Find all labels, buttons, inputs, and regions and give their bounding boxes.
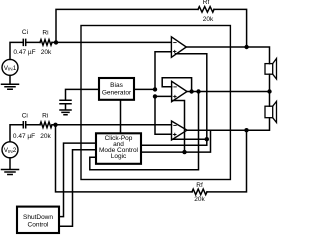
wire bias output right xyxy=(134,88,155,90)
svg-text:Ri: Ri xyxy=(42,29,48,36)
shutdown control U6 xyxy=(17,207,59,233)
wire Rf to amp1 output xyxy=(214,9,247,47)
wire bias to logic xyxy=(120,100,122,134)
speaker 2 xyxy=(265,101,277,122)
wire amp3 control xyxy=(173,138,207,140)
wire Ci to Ri (channel 1) xyxy=(26,41,40,43)
node bias junction 1 xyxy=(153,87,157,91)
wire Vin1 to Ci xyxy=(10,42,23,59)
wire Ri to amp3 inverting input xyxy=(52,124,172,126)
ground under Vin1 xyxy=(2,75,19,89)
wire bias bypass left xyxy=(66,89,100,100)
node amp2 output sense junction xyxy=(196,89,200,93)
wire amp2 feedback loop xyxy=(162,78,191,92)
svg-text:0.47 µF: 0.47 µF xyxy=(13,133,35,140)
svg-text:Control: Control xyxy=(28,222,50,229)
bias generator U4 xyxy=(99,78,134,100)
resistor Rf (top) xyxy=(198,7,214,13)
wire amp3 + input xyxy=(155,96,172,134)
svg-text:Rf: Rf xyxy=(196,182,203,189)
wire amp3 output xyxy=(187,118,270,131)
op-amp U3 (bottom) xyxy=(172,121,188,140)
wire Ci to Ri (channel 2) xyxy=(26,124,40,126)
mode control logic U5 xyxy=(96,133,141,164)
svg-text:Rf: Rf xyxy=(203,0,210,6)
svg-text:ShutDown: ShutDown xyxy=(23,214,53,221)
capacitor Ci (channel 1) xyxy=(23,39,25,45)
source Vin1 xyxy=(2,59,18,75)
wire amp1 output xyxy=(186,47,269,64)
label amp3 minus xyxy=(173,124,176,126)
IC package outline xyxy=(81,26,230,180)
wire amp2 output xyxy=(187,91,270,93)
ground under Vin2 xyxy=(2,158,19,175)
svg-text:Ri: Ri xyxy=(42,113,48,120)
wire Rf bottom to amp3 output xyxy=(207,130,247,192)
wire amp3 output sense xyxy=(141,130,211,152)
svg-text:0.47 µF: 0.47 µF xyxy=(13,49,35,56)
label amp2 plus xyxy=(173,95,176,98)
wire common to speaker2 xyxy=(269,92,271,107)
node amp2 control junction xyxy=(182,150,186,154)
label amp2 minus xyxy=(173,86,176,88)
svg-text:Generator: Generator xyxy=(102,90,132,97)
node amp3 output junction xyxy=(244,128,248,132)
wire Ri to amp1 inverting input xyxy=(52,41,171,43)
wire shutdown to logic 2 xyxy=(59,150,96,227)
wire amp1 control xyxy=(141,54,207,145)
wire amp2 control xyxy=(173,101,185,153)
svg-text:20k: 20k xyxy=(41,49,52,56)
svg-text:Bias: Bias xyxy=(110,82,123,89)
wire feedback drop channel 2 xyxy=(56,125,193,192)
node amp1 output junction xyxy=(244,45,248,49)
wire amp2 + input xyxy=(155,95,172,97)
node amp2 feedback junction xyxy=(189,89,193,93)
svg-text:VIN1: VIN1 xyxy=(4,65,17,72)
wire amp2 output to logic xyxy=(90,92,199,170)
svg-text:20k: 20k xyxy=(40,133,51,140)
wire speaker1 to common xyxy=(269,74,271,91)
node IN2- junction xyxy=(53,123,57,127)
wire amp1 + input xyxy=(155,52,171,90)
label amp1 plus xyxy=(173,50,176,53)
ground under bypass capacitor xyxy=(60,104,71,115)
wire shutdown to logic 1 xyxy=(59,143,96,217)
node headphone common junction xyxy=(267,89,271,93)
source Vin2 xyxy=(2,142,18,158)
svg-text:Ci: Ci xyxy=(22,29,28,36)
op-amp U2 (middle) xyxy=(172,81,187,101)
op-amp U1 (top) xyxy=(171,37,186,58)
node amp3 control junction xyxy=(205,137,209,141)
svg-text:Logic: Logic xyxy=(111,153,127,160)
wire Vin2 to Ci xyxy=(10,125,23,142)
resistor Ri (channel 1) xyxy=(40,40,52,46)
capacitor Ci (channel 2) xyxy=(23,122,25,128)
svg-text:VIN2: VIN2 xyxy=(4,147,17,154)
resistor Rf (bottom) xyxy=(192,189,207,195)
wire feedback riser channel 1 xyxy=(56,9,198,42)
svg-text:20k: 20k xyxy=(194,196,205,203)
capacitor bypass xyxy=(60,100,71,104)
svg-text:20k: 20k xyxy=(203,16,214,23)
svg-text:Ci: Ci xyxy=(22,113,28,120)
speaker 1 xyxy=(265,59,277,80)
label amp1 minus xyxy=(173,42,176,44)
label amp3 plus xyxy=(173,133,176,136)
resistor Ri (channel 2) xyxy=(40,122,52,128)
node bias junction 2 xyxy=(153,94,157,98)
node IN1- junction xyxy=(54,40,58,44)
